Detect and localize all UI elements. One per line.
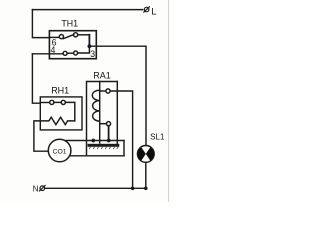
- svg-text:RH1: RH1: [51, 85, 69, 95]
- svg-text:3: 3: [90, 49, 95, 59]
- svg-text:SL1: SL1: [150, 133, 165, 142]
- svg-text:RA1: RA1: [93, 71, 111, 81]
- svg-text:4: 4: [50, 45, 55, 55]
- svg-text:TH1: TH1: [61, 18, 78, 28]
- svg-text:N: N: [33, 185, 39, 194]
- svg-text:CO1: CO1: [53, 148, 67, 155]
- svg-text:L: L: [151, 5, 156, 16]
